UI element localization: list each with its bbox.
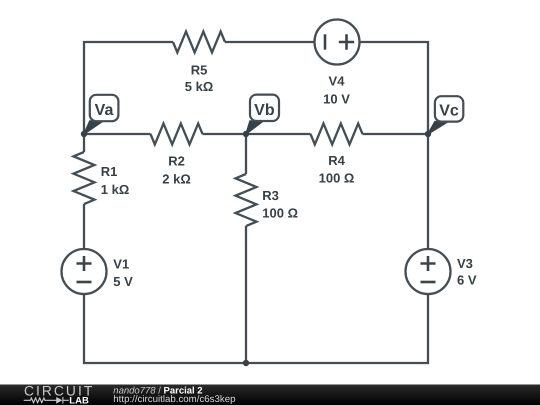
resistor R5	[173, 32, 225, 53]
svg-text:R1: R1	[101, 164, 118, 179]
svg-text:V3: V3	[457, 256, 473, 271]
wire V1 to R1	[83, 204, 85, 249]
svg-text:V4: V4	[329, 74, 346, 89]
svg-text:R5: R5	[191, 63, 208, 78]
svg-text:R4: R4	[328, 153, 345, 168]
node flag Vb	[246, 95, 279, 134]
svg-text:5 kΩ: 5 kΩ	[185, 79, 214, 94]
wire Vb to R3	[245, 134, 247, 174]
svg-text:5 V: 5 V	[113, 274, 133, 289]
svg-text:http://circuitlab.com/c6s3kep: http://circuitlab.com/c6s3kep	[113, 394, 235, 405]
svg-text:Vb: Vb	[254, 102, 275, 119]
resistor R1	[74, 152, 95, 204]
resistor R4	[311, 124, 363, 145]
wire R3 to bottom	[245, 226, 247, 363]
voltage source V1	[62, 249, 107, 294]
node Va junction dot	[81, 131, 87, 137]
logo resistor squiggle	[24, 397, 69, 404]
voltage source V3	[406, 249, 451, 294]
svg-text:R2: R2	[168, 154, 185, 169]
svg-text:6 V: 6 V	[457, 273, 477, 288]
svg-text:V1: V1	[113, 256, 129, 271]
footer bar	[0, 385, 540, 405]
svg-text:10 V: 10 V	[323, 92, 350, 107]
node Vc junction dot	[425, 131, 431, 137]
svg-text:100 Ω: 100 Ω	[262, 205, 298, 220]
node flag Vc	[428, 96, 463, 134]
resistor R2	[151, 124, 203, 145]
wire Va to R1	[83, 134, 85, 152]
svg-text:R3: R3	[262, 188, 279, 203]
wire bottom (V3 down, bottom run, up to V1)	[84, 294, 428, 363]
bottom junction dot	[243, 360, 249, 366]
svg-text:Va: Va	[95, 102, 114, 119]
voltage source V4	[315, 20, 360, 65]
svg-text:100 Ω: 100 Ω	[319, 171, 355, 186]
wire middle R4 to Vc	[363, 133, 429, 135]
wire middle Va to R2	[84, 133, 151, 135]
svg-text:2 kΩ: 2 kΩ	[162, 172, 191, 187]
wire top middle (R5 to V4)	[225, 41, 315, 43]
svg-text:Vc: Vc	[439, 102, 459, 119]
wire top-right L (V4 to corner, down to Vc)	[360, 42, 429, 134]
logo diode triangle	[56, 397, 62, 404]
svg-text:LAB: LAB	[69, 395, 89, 405]
wire middle R2 to R4 (through node Vb)	[203, 133, 311, 135]
resistor R3	[236, 174, 257, 226]
node flag Va	[84, 95, 118, 134]
svg-text:1 kΩ: 1 kΩ	[101, 182, 130, 197]
node Vb junction dot	[243, 131, 249, 137]
wire top-left L (left vertical + top-left horizontal)	[84, 42, 173, 134]
wire right vertical (Vc to V3)	[427, 134, 429, 249]
